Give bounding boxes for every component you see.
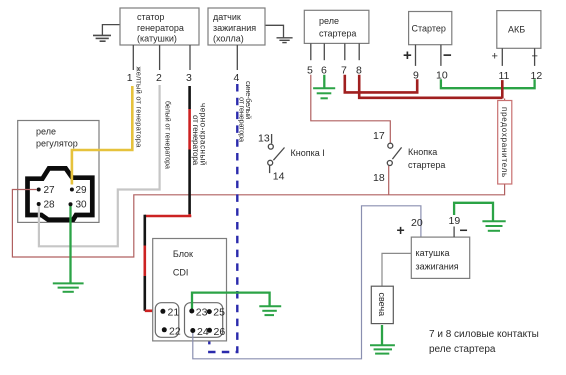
svg-text:6: 6: [321, 65, 327, 77]
svg-text:регулятор: регулятор: [36, 139, 78, 149]
svg-text:23: 23: [196, 307, 208, 319]
svg-text:зажигания: зажигания: [213, 23, 256, 33]
svg-text:12: 12: [531, 70, 543, 82]
svg-text:датчик: датчик: [213, 12, 241, 22]
svg-text:21: 21: [168, 307, 180, 319]
svg-text:8: 8: [356, 65, 362, 77]
svg-text:−: −: [532, 51, 538, 63]
svg-text:зажигания: зажигания: [416, 262, 459, 272]
svg-text:предохранитель: предохранитель: [500, 107, 509, 178]
svg-text:17: 17: [373, 130, 385, 142]
svg-text:3: 3: [186, 72, 192, 84]
svg-text:АКБ: АКБ: [508, 25, 525, 35]
svg-text:11: 11: [499, 70, 510, 82]
svg-text:4: 4: [234, 72, 240, 84]
svg-text:+: +: [397, 222, 405, 238]
svg-text:CDI: CDI: [173, 268, 189, 278]
svg-text:1: 1: [127, 72, 133, 84]
svg-text:29: 29: [76, 185, 88, 196]
svg-text:2: 2: [156, 72, 162, 84]
svg-text:14: 14: [273, 171, 285, 183]
svg-text:желтый от генератора: желтый от генератора: [135, 67, 144, 149]
svg-text:стартера: стартера: [408, 160, 445, 170]
svg-text:Блок: Блок: [173, 249, 193, 259]
svg-text:20: 20: [411, 217, 423, 229]
svg-text:(холла): (холла): [213, 34, 244, 44]
svg-text:белый от генератора: белый от генератора: [163, 101, 171, 169]
svg-text:от генератора: от генератора: [191, 115, 200, 166]
svg-text:5: 5: [307, 65, 313, 77]
svg-text:реле: реле: [319, 16, 339, 26]
svg-text:27: 27: [44, 185, 56, 196]
svg-text:7: 7: [341, 65, 347, 77]
svg-text:7 и 8 силовые контакты: 7 и 8 силовые контакты: [429, 329, 539, 340]
svg-text:свеча: свеча: [377, 293, 387, 317]
svg-text:+: +: [403, 47, 412, 64]
svg-text:генератора: генератора: [137, 23, 184, 33]
svg-text:от генератора: от генератора: [237, 97, 246, 143]
svg-text:−: −: [460, 222, 468, 238]
svg-text:18: 18: [373, 172, 385, 184]
svg-text:Кнопка: Кнопка: [408, 147, 437, 157]
svg-text:реле: реле: [36, 127, 56, 137]
svg-text:катушка: катушка: [416, 248, 450, 258]
svg-text:Кнопка I: Кнопка I: [291, 148, 325, 158]
svg-text:−: −: [443, 47, 452, 64]
svg-text:25: 25: [213, 307, 225, 319]
svg-text:Стартер: Стартер: [412, 24, 446, 34]
svg-text:22: 22: [169, 326, 181, 338]
svg-text:13: 13: [258, 133, 270, 145]
svg-text:статор: статор: [137, 12, 164, 22]
svg-text:реле стартера: реле стартера: [429, 344, 496, 355]
svg-text:(катушки): (катушки): [137, 34, 177, 44]
svg-text:30: 30: [76, 200, 88, 211]
svg-text:24: 24: [197, 326, 209, 338]
svg-text:28: 28: [44, 200, 56, 211]
svg-text:стартера: стартера: [319, 29, 356, 39]
svg-text:26: 26: [214, 326, 226, 338]
svg-text:+: +: [492, 51, 498, 63]
